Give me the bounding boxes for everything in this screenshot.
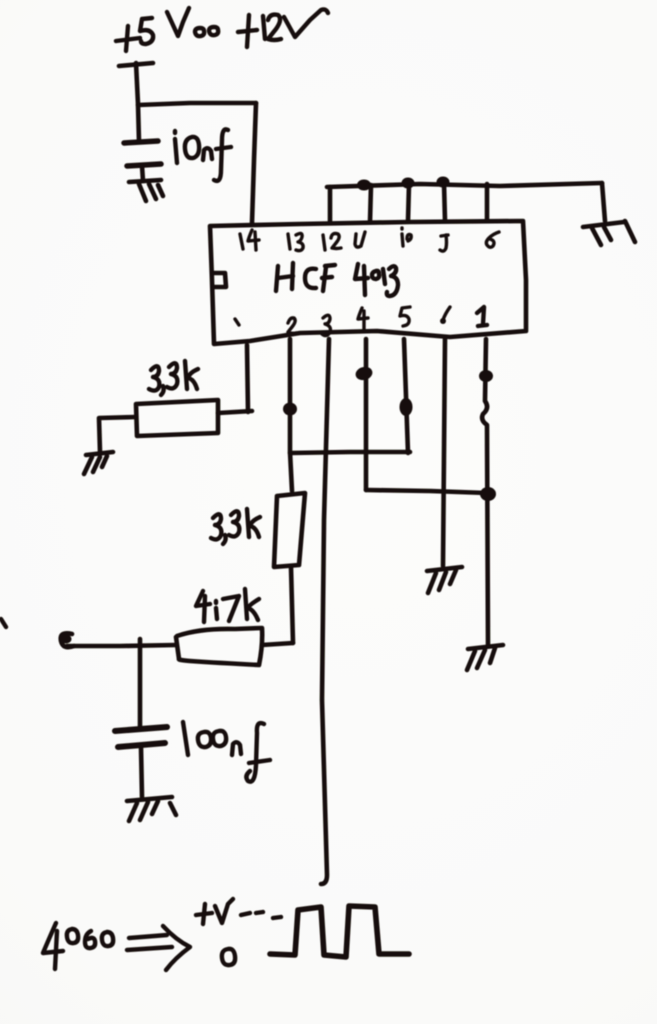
pin label 2 [288, 318, 296, 333]
wire bus to pin 11 [370, 185, 371, 222]
label +5V [116, 8, 189, 51]
junction dot pin 4 column [354, 365, 374, 382]
wire pin 6 down to ground [443, 339, 445, 566]
label 0 level [222, 949, 235, 965]
capacitor C1 10nF top plate [124, 141, 158, 143]
junction dot bus at pin 9 [437, 177, 450, 188]
top supply bus wire [327, 183, 602, 187]
input terminal hook [61, 633, 75, 647]
wire R2 bottom to R3 right [262, 643, 293, 645]
wire IC lower-left stub to R1 [247, 345, 248, 412]
bus right end drop to ground [602, 183, 605, 221]
junction dot pin 5 column [400, 398, 413, 416]
wire pin 2 down [290, 339, 292, 491]
waveform square wave [270, 906, 409, 957]
label 10nf for C1 [175, 129, 231, 180]
junction dot bus at pin 10 [402, 178, 415, 189]
ground GND2 below R1 [84, 452, 113, 474]
label 100nf for C2 [183, 722, 270, 782]
wire R2 bottom down [291, 567, 293, 643]
wire down from power wire to IC pin 14 [252, 103, 256, 223]
power rail +5V terminal bar [119, 63, 153, 66]
wire pin 4 down [364, 339, 369, 490]
dashes after +V [241, 912, 281, 918]
label HCF 4013 [276, 263, 398, 296]
wire bus to pin 9 [444, 183, 445, 221]
pin label 5 [400, 307, 410, 326]
wire R1 right to IC stub [218, 411, 252, 413]
op IC U1 HCF4013 outline [210, 221, 526, 344]
wire pin2 to pin5 horizontal [290, 452, 410, 453]
label 4060 [43, 923, 113, 969]
wire from +5V terminal down to C1 [136, 63, 139, 142]
wire pin4 to pin1 horizontal [366, 490, 487, 493]
label +12V [238, 9, 328, 47]
pin label 3 [322, 315, 330, 335]
junction dot pin 1 column lower [480, 487, 496, 501]
wire R1 left to ground [99, 417, 136, 452]
capacitor C1 10nF bottom plate [127, 164, 161, 166]
wire C1 to ground [142, 166, 143, 181]
IC pin-1 notch mark on left edge [213, 273, 226, 287]
pin label 14 [240, 230, 259, 250]
junction dot pin 1 column upper [479, 370, 493, 382]
label 3.3k for R2 [211, 509, 260, 544]
label +V [196, 899, 233, 924]
capacitor C2 100nF top plate [115, 727, 167, 731]
resistor R3 4.7k body [176, 628, 262, 665]
pin label 10 [402, 228, 411, 246]
wire bus to pin 12 [328, 187, 333, 223]
pin label small tick left [235, 319, 239, 325]
pin label 12 [323, 234, 341, 251]
pin label 4 [358, 308, 368, 331]
wire pin 5 down [404, 339, 408, 453]
ground GND6 below C2 [127, 797, 176, 821]
label 4.7k for R3 [196, 589, 259, 622]
wire pin 3 down long [321, 339, 329, 884]
resistor R2 3.3k vertical body [274, 493, 305, 567]
pin label 9 [440, 235, 448, 251]
wire from +5V node right to pin 14 [138, 103, 256, 105]
wire C2 to ground [141, 747, 142, 797]
label 3.3k for R1 [149, 361, 198, 395]
wire bus to pin 8 [485, 184, 490, 221]
stray mark left edge [1, 619, 6, 627]
ground GND3 at bus right end [583, 221, 635, 245]
wire input to R3 left [67, 645, 176, 646]
ground GND4 below pin 6 [427, 567, 462, 593]
wire junction down to C2 [138, 639, 143, 727]
label oo [195, 27, 218, 36]
capacitor C2 100nF bottom plate [118, 743, 165, 747]
ground GND5 below pin 1 [467, 645, 503, 670]
junction dot pin 2 column [283, 403, 297, 416]
junction dot bus at pin 11 [357, 180, 371, 191]
pin label 11 [355, 232, 365, 247]
pin label 13 [288, 233, 303, 250]
pin label 1 [477, 307, 487, 326]
ground GND1 below C1 [129, 180, 163, 201]
resistor R1 3.3k body [136, 400, 218, 436]
pin label 8 [486, 232, 499, 247]
wire bus to pin 10 [408, 184, 409, 221]
wire pin 1 down with kink [482, 339, 488, 645]
arrow double => [127, 926, 190, 970]
pin label 6 [440, 307, 450, 324]
